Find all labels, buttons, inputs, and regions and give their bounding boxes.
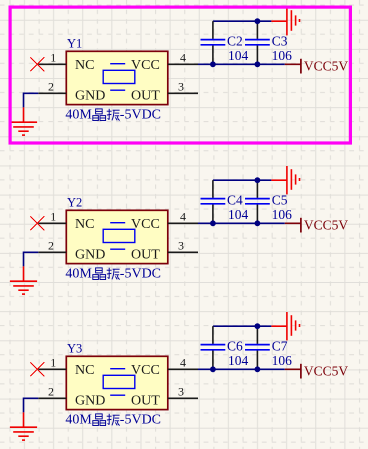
junction dot (rail / C4) bbox=[210, 220, 216, 226]
svg-text:4: 4 bbox=[180, 50, 186, 64]
svg-text:Y2: Y2 bbox=[67, 195, 82, 209]
svg-text:VCC5V: VCC5V bbox=[304, 217, 349, 232]
power port VCC5V bbox=[285, 218, 301, 233]
comment 40M晶振-5VDC bbox=[65, 412, 161, 427]
ground symbol (power ground, top right) bbox=[271, 7, 299, 35]
svg-text:NC: NC bbox=[75, 58, 94, 73]
junction dot (rail / C2) bbox=[210, 61, 216, 67]
ground symbol (power ground, left) bbox=[10, 107, 37, 135]
svg-text:OUT: OUT bbox=[131, 393, 160, 408]
pin 1 (NC) bbox=[38, 63, 66, 65]
ground symbol (power ground, top right) bbox=[271, 166, 299, 194]
pin 3 (OUT) bbox=[168, 92, 198, 94]
svg-text:3: 3 bbox=[178, 384, 184, 398]
wire top rail (caps to ground) bbox=[213, 325, 272, 327]
pin 4 (VCC) bbox=[168, 63, 198, 65]
pin 2 (GND) bbox=[38, 397, 66, 399]
svg-text:C7: C7 bbox=[272, 339, 288, 354]
svg-text:C3: C3 bbox=[272, 34, 288, 49]
junction dot (rail / C6) bbox=[210, 366, 216, 372]
pin 4 (VCC) bbox=[168, 222, 198, 224]
wire pin 4 to VCC5V power port bbox=[198, 63, 285, 65]
svg-text:104: 104 bbox=[228, 207, 249, 222]
junction dot (top rail / C3) bbox=[255, 18, 261, 24]
svg-text:OUT: OUT bbox=[131, 247, 160, 262]
svg-text:C6: C6 bbox=[227, 339, 243, 354]
svg-text:1: 1 bbox=[50, 51, 56, 65]
wire pin 2 to ground bbox=[24, 93, 39, 107]
junction dot (rail / C3) bbox=[255, 61, 261, 67]
svg-text:4: 4 bbox=[180, 209, 186, 223]
svg-text:40M: 40M bbox=[65, 266, 92, 281]
ground symbol (power ground, left) bbox=[10, 266, 37, 294]
oscillator Y3 body bbox=[66, 356, 168, 409]
svg-text:106: 106 bbox=[272, 353, 293, 368]
wire pin 2 to ground bbox=[24, 398, 39, 412]
pin 3 (OUT) bbox=[168, 397, 198, 399]
svg-text:VCC5V: VCC5V bbox=[304, 363, 349, 378]
ground symbol (power ground, top right) bbox=[271, 312, 299, 340]
ground symbol (power ground, left) bbox=[10, 412, 37, 440]
svg-text:NC: NC bbox=[75, 363, 94, 378]
junction dot (rail / C5) bbox=[255, 220, 261, 226]
comment 40M晶振-5VDC bbox=[65, 266, 161, 281]
svg-text:Y1: Y1 bbox=[67, 36, 82, 50]
comment 40M晶振-5VDC bbox=[65, 107, 161, 122]
capacitor C7 bbox=[245, 326, 270, 369]
svg-text:40M: 40M bbox=[65, 412, 92, 427]
svg-text:-5VDC: -5VDC bbox=[120, 412, 161, 427]
crystal symbol inside Y2 bbox=[103, 223, 135, 250]
power port VCC5V bbox=[285, 364, 301, 379]
svg-text:104: 104 bbox=[228, 353, 249, 368]
capacitor C4 bbox=[201, 180, 226, 223]
svg-text:Y3: Y3 bbox=[67, 341, 82, 355]
svg-text:2: 2 bbox=[48, 238, 54, 252]
svg-text:1: 1 bbox=[50, 356, 56, 370]
svg-text:GND: GND bbox=[75, 247, 105, 262]
capacitor C3 bbox=[245, 21, 270, 64]
junction dot (top rail / C5) bbox=[255, 177, 261, 183]
oscillator Y2 body bbox=[66, 210, 168, 263]
svg-text:2: 2 bbox=[48, 79, 54, 93]
svg-text:GND: GND bbox=[75, 393, 105, 408]
no-connect X on pin 1 bbox=[30, 216, 44, 230]
junction dot (rail / C7) bbox=[255, 366, 261, 372]
selection highlight rectangle around circuit Y1 bbox=[10, 7, 350, 143]
pin 4 (VCC) bbox=[168, 368, 198, 370]
svg-text:OUT: OUT bbox=[131, 88, 160, 103]
wire pin 4 to VCC5V power port bbox=[198, 368, 285, 370]
pin 2 (GND) bbox=[38, 92, 66, 94]
pin 1 (NC) bbox=[38, 222, 66, 224]
crystal symbol inside Y3 bbox=[103, 369, 135, 396]
svg-text:C2: C2 bbox=[227, 34, 243, 49]
wire pin 2 to ground bbox=[24, 252, 39, 266]
svg-text:40M: 40M bbox=[65, 107, 92, 122]
pin 3 (OUT) bbox=[168, 251, 198, 253]
capacitor C6 bbox=[201, 326, 226, 369]
capacitor C2 bbox=[201, 21, 226, 64]
svg-text:104: 104 bbox=[228, 48, 249, 63]
no-connect X on pin 1 bbox=[30, 57, 44, 71]
svg-text:106: 106 bbox=[272, 207, 293, 222]
junction dot (top rail / C7) bbox=[255, 323, 261, 329]
svg-text:C5: C5 bbox=[272, 193, 288, 208]
svg-text:GND: GND bbox=[75, 88, 105, 103]
crystal symbol inside Y1 bbox=[103, 64, 135, 90]
no-connect X on pin 1 bbox=[30, 362, 44, 376]
oscillator Y1 body bbox=[66, 51, 168, 104]
svg-text:-5VDC: -5VDC bbox=[120, 107, 161, 122]
pin 1 (NC) bbox=[38, 368, 66, 370]
svg-text:VCC5V: VCC5V bbox=[304, 58, 349, 73]
capacitor C5 bbox=[245, 180, 270, 223]
wire pin 4 to VCC5V power port bbox=[198, 222, 285, 224]
svg-text:106: 106 bbox=[272, 48, 293, 63]
svg-text:3: 3 bbox=[178, 79, 184, 93]
power port VCC5V bbox=[285, 59, 301, 74]
svg-text:2: 2 bbox=[48, 384, 54, 398]
svg-text:1: 1 bbox=[50, 210, 56, 224]
pin 2 (GND) bbox=[38, 251, 66, 253]
wire top rail (caps to ground) bbox=[213, 20, 272, 22]
svg-text:NC: NC bbox=[75, 217, 94, 232]
wire top rail (caps to ground) bbox=[213, 179, 272, 181]
svg-text:4: 4 bbox=[180, 355, 186, 369]
svg-text:3: 3 bbox=[178, 238, 184, 252]
svg-text:C4: C4 bbox=[227, 193, 243, 208]
svg-text:-5VDC: -5VDC bbox=[120, 266, 161, 281]
